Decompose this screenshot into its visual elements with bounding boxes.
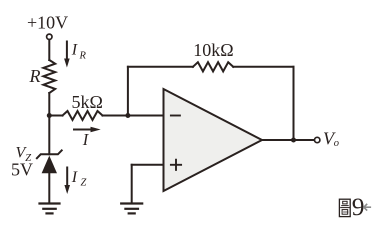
svg-text:Z: Z [81, 178, 87, 189]
svg-text:+10V: +10V [27, 13, 68, 33]
current arrow IR [64, 42, 70, 68]
node output junction [291, 138, 296, 143]
current arrow I [74, 127, 101, 133]
zener diode VZ triangle [42, 156, 57, 174]
wire 5k to op-amp minus input [103, 115, 164, 117]
label VZ [16, 145, 32, 165]
wire R to node A [48, 93, 50, 116]
wire node A to 5k resistor [49, 115, 62, 117]
wire terminal to R [48, 40, 50, 60]
label IR [71, 42, 87, 62]
wire plus input horizontal [132, 164, 164, 166]
svg-text:o: o [334, 138, 339, 149]
svg-text:R: R [79, 51, 87, 62]
svg-text:10kΩ: 10kΩ [193, 40, 233, 60]
wire feedback top left [128, 66, 193, 68]
terminal +10V [47, 34, 52, 39]
resistor 10k [193, 62, 233, 71]
svg-text:R: R [29, 66, 41, 86]
svg-text:9: 9 [352, 192, 365, 221]
svg-text:I: I [82, 130, 90, 149]
node A junction [47, 113, 52, 118]
svg-text:I: I [71, 169, 78, 186]
figure label 圖 glyph [339, 199, 350, 216]
wire output [262, 139, 314, 141]
ground right [121, 204, 142, 214]
wire feedback left vertical [127, 67, 129, 116]
ground left [40, 204, 60, 214]
op-amp plus sign [171, 160, 181, 170]
current arrow IZ [64, 168, 70, 195]
wire feedback right vertical [293, 67, 295, 140]
wire feedback top right [233, 66, 293, 68]
resistor 5k [63, 111, 103, 120]
svg-text:I: I [71, 42, 78, 59]
wire node A to zener [48, 116, 50, 155]
svg-text:5kΩ: 5kΩ [72, 92, 103, 112]
label IZ [71, 169, 87, 189]
wire zener to ground [48, 173, 50, 203]
svg-text:5V: 5V [11, 160, 33, 180]
zener diode VZ cathode bar [37, 150, 62, 158]
resistor R [43, 60, 55, 93]
terminal Vo [315, 137, 320, 142]
label Vo [323, 129, 339, 150]
node minus input junction [125, 113, 130, 118]
op-amp U1 [164, 89, 263, 191]
wire plus input vertical [131, 165, 133, 204]
op-amp minus sign [171, 115, 180, 117]
figure link arrow [364, 204, 371, 210]
